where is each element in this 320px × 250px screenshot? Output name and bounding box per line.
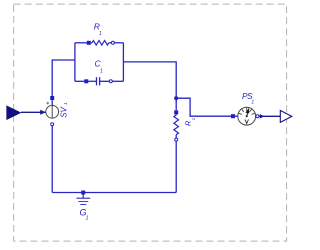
svg-text:1: 1 (100, 68, 103, 74)
wire: node A to sensor PS1 (176, 98, 231, 116)
pin n of R2 (open circle) (175, 138, 178, 141)
signal arrowhead at PS1 output (260, 114, 265, 118)
pin p of SV1 (filled square) (50, 96, 54, 100)
resistor R1 (87, 41, 115, 46)
wire: left lead to resistor R1 (75, 42, 89, 44)
pin n of R1 (open circle) (111, 41, 114, 44)
pin n of SV1 (open circle) (51, 123, 54, 126)
label C1 (95, 59, 104, 75)
resistor R2 (vertical) (174, 110, 179, 141)
wire: right lead from resistor R1 (115, 42, 124, 44)
PS1 needle (247, 113, 248, 117)
output signal connector (open triangle) (280, 110, 292, 122)
potential sensor PS1 (231, 107, 259, 125)
label PS1 (242, 91, 254, 105)
PS1 gauge tick marks (238, 107, 255, 114)
pin p of R1 (filled square) (87, 41, 91, 45)
capacitor C1 (84, 77, 112, 85)
wire: RC parallel block left bus (74, 43, 76, 82)
wire: node A down to resistor R2 (175, 98, 177, 110)
signal pin of PS1 (open circle) (256, 115, 259, 118)
wire: RC block output to node A (123, 62, 176, 98)
node A junction dot (174, 96, 178, 100)
R1 body zigzag (91, 42, 92, 44)
PS1 gauge body circle (238, 107, 256, 125)
svg-text:1: 1 (99, 31, 102, 37)
svg-text:R: R (94, 22, 100, 32)
signal wire: input connector to SV1 (21, 111, 46, 113)
label R2 (rotated) (184, 117, 196, 126)
label SV1 (rotated) (59, 102, 68, 118)
plus sign at SV1 positive pin (46, 102, 49, 105)
wire: bottom ground rail (52, 192, 176, 194)
svg-text:1: 1 (86, 216, 89, 222)
pin p of R2 (filled square) (174, 110, 178, 114)
input signal connector (filled triangle) (7, 106, 21, 120)
label R1 (94, 22, 102, 38)
wire: RC parallel block right bus (122, 43, 124, 82)
wire: right lead from capacitor C1 (113, 80, 124, 82)
SV1 body circle (46, 105, 59, 118)
pin p of C1 (filled square) (84, 79, 88, 83)
signal wire: PS1 to output connector (259, 115, 280, 117)
svg-text:SV: SV (59, 106, 68, 117)
svg-text:1: 1 (251, 99, 254, 105)
signal voltage source SV1 (46, 96, 59, 126)
signal arrowhead at SV1 (40, 110, 46, 115)
ground G1 (76, 191, 90, 205)
wire: SV1 top pin up and right to RC left bus (52, 60, 75, 98)
wire: left lead to capacitor C1 (75, 80, 86, 82)
R2 body zigzag (175, 113, 177, 116)
wire: SV1 bottom pin down to ground rail (51, 126, 53, 193)
pin of G1 (filled square) (81, 191, 85, 195)
wire: R2 bottom pin down to ground rail (175, 141, 177, 192)
svg-text:C: C (95, 59, 102, 69)
pin p of PS1 (filled square) (231, 114, 235, 118)
pin n of C1 (open circle) (109, 80, 112, 83)
C1 plates (88, 80, 96, 82)
G1 stem and bars (82, 195, 84, 199)
SV1 axis line (51, 105, 53, 118)
PS1 unit letter V (245, 119, 249, 123)
label G1 (80, 208, 89, 222)
